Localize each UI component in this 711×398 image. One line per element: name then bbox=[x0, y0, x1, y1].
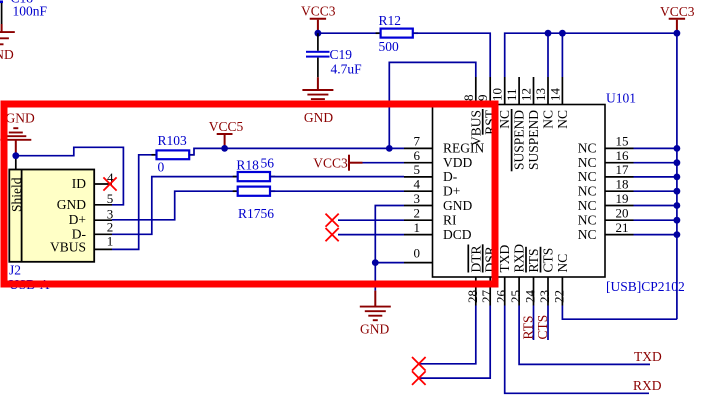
svg-text:8: 8 bbox=[461, 95, 476, 102]
svg-text:R18: R18 bbox=[236, 158, 259, 173]
svg-text:22: 22 bbox=[551, 290, 566, 303]
svg-text:R103: R103 bbox=[158, 133, 188, 148]
pin 4 ID stub bbox=[94, 183, 112, 185]
wire VBUS pin 8 loop to REGIN node bbox=[389, 62, 476, 148]
svg-text:0: 0 bbox=[158, 160, 165, 175]
svg-text:R1756: R1756 bbox=[238, 206, 274, 221]
svg-text:3: 3 bbox=[414, 191, 421, 206]
pin 5 GND wire J2 bbox=[16, 147, 124, 206]
ground (below C18) bbox=[0, 24, 15, 62]
wire RTS pin 24 bbox=[533, 306, 535, 341]
resistor R18 bbox=[233, 156, 276, 182]
IC U101 CP2102 bbox=[433, 91, 685, 295]
resistor R103 bbox=[152, 133, 195, 175]
svg-text:NC: NC bbox=[578, 169, 597, 184]
no-ERC X (pin 27) bbox=[412, 371, 426, 385]
svg-text:C19: C19 bbox=[330, 47, 353, 62]
connector J2 (USB) bbox=[9, 170, 94, 293]
svg-text:NC: NC bbox=[578, 213, 597, 228]
wire R17 to D+ pin 4 bbox=[270, 190, 404, 192]
svg-text:26: 26 bbox=[494, 290, 509, 304]
svg-text:4: 4 bbox=[414, 177, 421, 192]
svg-text:NC: NC bbox=[578, 184, 597, 199]
wire GND pin 3 to ground bbox=[375, 206, 404, 291]
svg-text:18: 18 bbox=[616, 177, 629, 192]
svg-text:GND: GND bbox=[6, 110, 35, 125]
pin 3 D+ wire J2 bbox=[94, 191, 238, 221]
wire CTS pin 23 bbox=[547, 306, 549, 341]
wire J2 shield to GND node bbox=[12, 152, 19, 169]
power VCC3 (top right) bbox=[660, 4, 695, 33]
svg-text:13: 13 bbox=[533, 88, 548, 101]
U101 bottom pin names bbox=[468, 244, 570, 273]
svg-text:27: 27 bbox=[479, 290, 494, 304]
svg-text:RTS: RTS bbox=[521, 316, 536, 340]
svg-text:56: 56 bbox=[261, 156, 275, 171]
svg-text:1: 1 bbox=[414, 220, 421, 235]
svg-text:6: 6 bbox=[414, 148, 421, 163]
svg-text:VCC3: VCC3 bbox=[660, 4, 695, 19]
svg-text:5: 5 bbox=[414, 162, 421, 177]
svg-text:NC: NC bbox=[555, 110, 570, 129]
U101 left pin numbers bbox=[414, 134, 421, 235]
svg-text:0: 0 bbox=[414, 245, 421, 260]
svg-text:D-: D- bbox=[443, 169, 458, 184]
no-ERC X (DCD pin 1) bbox=[326, 228, 405, 241]
svg-text:9: 9 bbox=[475, 95, 490, 102]
U101 right pin names bbox=[578, 141, 597, 242]
svg-text:5: 5 bbox=[107, 191, 114, 206]
svg-text:24: 24 bbox=[523, 290, 538, 304]
U101 top pin numbers bbox=[461, 88, 563, 102]
svg-text:SUSPEND: SUSPEND bbox=[526, 110, 541, 170]
svg-text:RI: RI bbox=[443, 213, 457, 228]
U101 right pin numbers bbox=[616, 134, 630, 235]
svg-text:NC: NC bbox=[578, 141, 597, 156]
capacitor C18 bbox=[0, 0, 48, 24]
svg-text:GND: GND bbox=[360, 321, 389, 336]
svg-text:TXD: TXD bbox=[634, 349, 662, 364]
svg-text:NC: NC bbox=[578, 155, 597, 170]
power VCC3 (at VDD pin 6) bbox=[313, 155, 362, 171]
wire R103 to REGIN pin 7 bbox=[189, 148, 404, 154]
U101 left pin stubs 7-0 bbox=[404, 148, 433, 262]
svg-text:28: 28 bbox=[465, 290, 480, 303]
wire pin 0 to ground node bbox=[372, 245, 420, 266]
svg-text:CTS: CTS bbox=[535, 315, 550, 340]
svg-text:ID: ID bbox=[72, 176, 86, 191]
svg-text:D+: D+ bbox=[443, 184, 460, 199]
svg-text:GND: GND bbox=[57, 197, 86, 212]
svg-text:RXD: RXD bbox=[633, 378, 662, 393]
svg-text:10: 10 bbox=[490, 88, 505, 101]
svg-text:GND: GND bbox=[443, 198, 472, 213]
svg-text:D+: D+ bbox=[69, 212, 86, 227]
svg-text:17: 17 bbox=[616, 162, 630, 177]
svg-text:14: 14 bbox=[547, 88, 562, 102]
wire TXD pin 26 to RXD net bbox=[505, 306, 649, 394]
junction node REGIN bbox=[386, 145, 393, 152]
svg-text:11: 11 bbox=[504, 88, 519, 101]
svg-text:25: 25 bbox=[508, 290, 523, 303]
U101 top pin stubs 8-14 bbox=[476, 77, 563, 105]
svg-text:15: 15 bbox=[616, 134, 629, 149]
wire R18 to D- pin 5 bbox=[270, 176, 404, 178]
svg-text:SUSPEND: SUSPEND bbox=[512, 110, 527, 170]
svg-text:7: 7 bbox=[414, 134, 421, 149]
svg-text:GND: GND bbox=[304, 110, 333, 125]
svg-text:CTS: CTS bbox=[541, 248, 556, 273]
power VCC5 bbox=[209, 119, 244, 152]
svg-text:12: 12 bbox=[519, 88, 534, 101]
svg-text:100nF: 100nF bbox=[13, 4, 48, 19]
svg-text:TXD: TXD bbox=[497, 245, 512, 273]
svg-text:2: 2 bbox=[107, 219, 114, 234]
svg-text:VBUS: VBUS bbox=[468, 110, 483, 146]
resistor R17 bbox=[233, 187, 276, 221]
svg-text:VDD: VDD bbox=[443, 155, 472, 170]
svg-text:RXD: RXD bbox=[512, 244, 527, 273]
svg-text:2: 2 bbox=[414, 206, 421, 221]
svg-text:20: 20 bbox=[616, 206, 629, 221]
ground (J2, flipped) bbox=[0, 110, 35, 155]
wire VCC3 to VDD pin 6 bbox=[363, 162, 405, 164]
svg-text:1: 1 bbox=[107, 234, 114, 249]
wire NC pin 22 to bus bbox=[562, 306, 677, 320]
pin 1 VBUS wire J2 bbox=[94, 155, 156, 250]
highlight rectangle bbox=[4, 104, 495, 284]
no-ERC X (pin 28) bbox=[412, 357, 426, 371]
U101 right pin stubs 15-21 bbox=[605, 148, 634, 234]
svg-text:NC: NC bbox=[541, 110, 556, 129]
svg-text:R12: R12 bbox=[379, 13, 402, 28]
svg-text:VCC3: VCC3 bbox=[313, 156, 348, 171]
wire R12 to RST pin 9 bbox=[413, 33, 490, 77]
U101 top pin names bbox=[468, 109, 570, 171]
wires NC pins 15-21 to bus bbox=[634, 145, 681, 238]
svg-text:4.7uF: 4.7uF bbox=[331, 62, 363, 77]
resistor R12 bbox=[376, 13, 418, 54]
U101 bottom pin numbers bbox=[465, 290, 567, 304]
wire DSR pin 27 bbox=[419, 306, 490, 379]
wire DTR pin 28 bbox=[419, 306, 476, 364]
svg-text:NC: NC bbox=[555, 254, 570, 273]
svg-text:Shield: Shield bbox=[9, 177, 24, 212]
svg-text:RTS: RTS bbox=[526, 249, 541, 273]
pin 2 D- wire J2 bbox=[94, 177, 238, 235]
svg-text:19: 19 bbox=[616, 191, 629, 206]
svg-text:VCC3: VCC3 bbox=[301, 4, 336, 19]
svg-text:J2: J2 bbox=[9, 263, 21, 278]
capacitor C19 bbox=[306, 33, 362, 77]
ground (below pin 0) bbox=[360, 291, 391, 337]
wire VCC3 net to pins 10,13,14 bbox=[505, 30, 681, 77]
svg-text:GND: GND bbox=[0, 47, 14, 62]
svg-text:16: 16 bbox=[616, 148, 630, 163]
svg-text:NC: NC bbox=[497, 110, 512, 129]
wire RXD pin 25 to TXD net bbox=[519, 306, 650, 365]
power VCC3 (above C19) bbox=[301, 4, 336, 34]
svg-text:NC: NC bbox=[578, 198, 597, 213]
svg-text:500: 500 bbox=[379, 39, 400, 54]
no-ERC X (J2 ID) bbox=[103, 177, 116, 190]
svg-text:VBUS: VBUS bbox=[50, 240, 86, 255]
svg-text:DCD: DCD bbox=[443, 227, 472, 242]
U101 left pin names bbox=[443, 141, 484, 242]
ground (below C19) bbox=[302, 77, 333, 125]
wire NC bus (right vertical) bbox=[676, 33, 678, 319]
svg-text:21: 21 bbox=[616, 220, 629, 235]
svg-text:[USB]CP2102: [USB]CP2102 bbox=[606, 279, 685, 294]
svg-text:VCC5: VCC5 bbox=[209, 119, 244, 134]
no-ERC X (RI pin 2) bbox=[326, 214, 405, 227]
wire VCC3 node to R12 bbox=[315, 30, 381, 37]
svg-text:DTR: DTR bbox=[468, 246, 483, 273]
svg-text:U101: U101 bbox=[606, 91, 636, 106]
svg-text:23: 23 bbox=[537, 290, 552, 303]
svg-text:NC: NC bbox=[578, 227, 597, 242]
U101 bottom pin stubs 28-22 bbox=[476, 277, 563, 306]
